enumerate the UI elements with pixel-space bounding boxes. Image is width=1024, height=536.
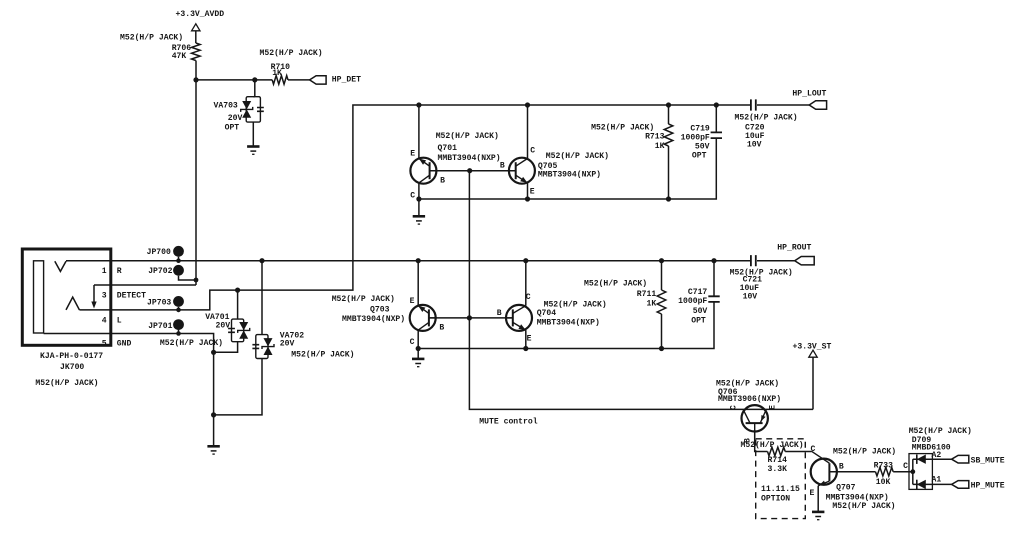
transistor Q701 [410, 158, 437, 184]
jumper JP701 pad [173, 319, 184, 330]
svg-text:C: C [530, 147, 535, 156]
power symbol +3.3V_AVDD [192, 24, 200, 31]
svg-text:1000pF: 1000pF [678, 297, 707, 306]
svg-text:M52(H/P JACK): M52(H/P JACK) [909, 427, 972, 436]
svg-text:M52(H/P JACK): M52(H/P JACK) [120, 33, 183, 42]
resistor R711 body [657, 290, 666, 314]
node Q703 E rail [416, 258, 421, 263]
wire [252, 122, 254, 146]
node R713 top [666, 102, 671, 107]
svg-text:B: B [839, 463, 844, 472]
node C717 top [711, 258, 716, 263]
node VA701 top [235, 288, 240, 293]
node D709 common [910, 469, 915, 474]
node JP703 on L wire [176, 308, 181, 313]
connector JK700 jack body [22, 249, 111, 345]
svg-text:B: B [440, 176, 445, 185]
wire [668, 146, 670, 199]
wire R706 to detect line [195, 61, 197, 286]
svg-text:10V: 10V [743, 292, 758, 301]
wire [254, 80, 256, 97]
svg-text:Q707: Q707 [836, 484, 856, 493]
wire Q706 base to R714 [755, 432, 768, 452]
svg-text:B: B [497, 309, 502, 318]
svg-text:M52(H/P JACK): M52(H/P JACK) [546, 152, 609, 161]
node R711 top [659, 258, 664, 263]
wire Q705 collector [527, 105, 529, 159]
node R713 bottom [666, 196, 671, 201]
wire +3.3V_ST [812, 357, 814, 409]
svg-text:M52(H/P JACK): M52(H/P JACK) [832, 502, 895, 511]
svg-text:20V: 20V [280, 340, 295, 349]
svg-text:DETECT: DETECT [117, 291, 146, 300]
wire D709 common cathode [912, 459, 914, 484]
svg-text:10K: 10K [876, 478, 891, 487]
resistor R706 body [192, 43, 201, 61]
node Q704 C rail [523, 258, 528, 263]
svg-text:1000pF: 1000pF [681, 133, 710, 142]
svg-text:OPT: OPT [691, 317, 706, 326]
svg-text:E: E [769, 405, 778, 410]
svg-text:C720: C720 [745, 123, 765, 132]
svg-text:Q701: Q701 [438, 144, 458, 153]
diode D709 body [909, 454, 932, 490]
wire [196, 79, 272, 81]
svg-text:+3.3V_AVDD: +3.3V_AVDD [176, 10, 225, 19]
svg-text:C: C [410, 191, 415, 200]
svg-text:L: L [117, 316, 122, 325]
node GND/VA702 [211, 412, 216, 417]
wire [661, 314, 663, 349]
jack ring contact (L) [66, 297, 79, 310]
wire [261, 261, 263, 335]
svg-text:E: E [527, 335, 532, 344]
transistor Q704 [505, 305, 532, 331]
svg-text:E: E [809, 489, 814, 498]
wire [715, 105, 717, 132]
wire R714 to Q707 collector [785, 451, 811, 453]
svg-text:1K: 1K [646, 300, 656, 309]
capacitor C721 [751, 255, 756, 266]
svg-text:MUTE control: MUTE control [479, 418, 537, 427]
wire bottom amp bottom rail [418, 302, 714, 349]
svg-text:R714: R714 [768, 456, 788, 465]
svg-text:HP_LOUT: HP_LOUT [792, 89, 826, 98]
node junction R706/HP_DET [193, 77, 198, 82]
wire R733 to D709 [893, 471, 913, 473]
wire Q707 emitter to gnd [817, 486, 819, 512]
ground Q703 [412, 359, 424, 367]
wire Q705 emitter [527, 183, 529, 199]
diode D709 lower (A1) [916, 480, 918, 489]
jack detect arrowhead [91, 302, 96, 309]
svg-text:B: B [439, 324, 444, 333]
svg-text:M52(H/P JACK): M52(H/P JACK) [735, 114, 798, 123]
suppressor VA701 [228, 319, 244, 342]
svg-text:JP702: JP702 [148, 267, 172, 276]
svg-text:M52(H/P JACK): M52(H/P JACK) [584, 279, 647, 288]
svg-text:50V: 50V [695, 143, 710, 152]
port HP_MUTE [952, 481, 969, 489]
port HP_ROUT [795, 257, 815, 265]
svg-text:JP703: JP703 [147, 298, 171, 307]
svg-text:R711: R711 [637, 290, 657, 299]
wire [253, 96, 255, 98]
wire top amp bottom rail [419, 138, 716, 199]
resistor R710 body [272, 76, 288, 85]
wire [237, 290, 239, 319]
JP701 stub [178, 330, 180, 334]
transistor Q707 [811, 451, 837, 486]
svg-text:20V: 20V [216, 321, 231, 330]
JP702 stub [179, 276, 197, 280]
port HP_DET [310, 76, 327, 84]
option box 11.11.15 [756, 439, 806, 519]
svg-text:JP701: JP701 [148, 322, 172, 331]
node GND/VA701 [211, 350, 216, 355]
wire base Q701-Q705 [430, 170, 516, 172]
node JP700 on R wire [176, 258, 181, 263]
wire [195, 31, 197, 43]
wire to ground [417, 349, 419, 359]
ground Q707 [812, 512, 824, 520]
svg-text:SB_MUTE: SB_MUTE [971, 457, 1005, 466]
node Q704 E [523, 346, 528, 351]
node junction VA703 [252, 77, 257, 82]
node Q701 E rail [416, 102, 421, 107]
svg-text:M52(H/P JACK): M52(H/P JACK) [436, 132, 499, 141]
arrow Q707 emitter [818, 481, 826, 488]
suppressor VA703 [246, 97, 264, 122]
wire Q704 emitter [525, 330, 527, 348]
transistor Q705 [508, 158, 535, 184]
power symbol +3.3V_ST [809, 350, 817, 357]
wire MUTE control [469, 171, 813, 410]
wire Q701 emitter [418, 105, 420, 159]
svg-text:MMBT3904(NXP): MMBT3904(NXP) [538, 170, 601, 179]
svg-text:M52(H/P JACK): M52(H/P JACK) [591, 123, 654, 132]
node Q705 E [525, 196, 530, 201]
svg-text:OPT: OPT [225, 124, 240, 133]
svg-text:M52(H/P JACK): M52(H/P JACK) [332, 295, 395, 304]
svg-text:4: 4 [102, 316, 107, 325]
wire DETECT pin3 [94, 284, 196, 286]
port HP_LOUT [809, 101, 826, 109]
svg-text:E: E [410, 297, 415, 306]
svg-text:MMBT3904(NXP): MMBT3904(NXP) [342, 315, 405, 324]
suppressor VA702 [252, 335, 268, 359]
resistor R733 body [876, 467, 894, 476]
svg-text:50V: 50V [693, 307, 708, 316]
svg-text:R733: R733 [874, 462, 894, 471]
svg-text:HP_ROUT: HP_ROUT [777, 244, 811, 253]
svg-text:C719: C719 [690, 125, 710, 134]
svg-text:OPTION: OPTION [761, 495, 790, 504]
svg-text:1: 1 [102, 267, 107, 276]
transistor Q706 [742, 405, 768, 431]
svg-text:20V: 20V [228, 114, 243, 123]
capacitor C717 [708, 296, 719, 302]
svg-text:GND: GND [117, 339, 132, 348]
svg-text:Q704: Q704 [537, 309, 557, 318]
wire D709 A2 to SB_MUTE [913, 458, 952, 460]
node Q701 C [416, 196, 421, 201]
jack detect switch arm [93, 285, 95, 305]
svg-text:10V: 10V [747, 141, 762, 150]
svg-text:R713: R713 [645, 133, 665, 142]
node Q705 C rail [525, 102, 530, 107]
svg-text:3: 3 [102, 291, 107, 300]
node base junction top [467, 168, 472, 173]
svg-text:JK700: JK700 [60, 363, 84, 372]
wire Q703 collector [417, 330, 419, 348]
svg-text:1K: 1K [272, 69, 282, 78]
svg-text:Q703: Q703 [370, 305, 390, 314]
jumper JP700 pad [173, 246, 184, 257]
svg-text:5: 5 [102, 339, 107, 348]
wire Q704 collector [525, 261, 527, 306]
wire GND net [44, 334, 214, 446]
svg-text:B: B [500, 161, 505, 170]
ground VA703 [247, 147, 259, 155]
wire [661, 261, 663, 290]
JP703 stub [178, 307, 180, 310]
resistor R713 body [664, 124, 673, 146]
resistor R714 body [768, 447, 786, 456]
svg-text:47K: 47K [172, 52, 187, 61]
svg-text:JP700: JP700 [147, 248, 171, 257]
jumper JP703 pad [173, 296, 184, 307]
jack tip contact (R) [55, 261, 66, 271]
wire L to port [757, 104, 809, 106]
wire R to port [757, 260, 795, 262]
jack sleeve contact [34, 261, 44, 333]
wire [713, 261, 715, 297]
node JP702 to detect pullup [194, 278, 199, 283]
svg-text:M52(H/P JACK): M52(H/P JACK) [833, 447, 896, 456]
transistor Q703 [410, 305, 437, 331]
ground Q701 [413, 216, 425, 224]
svg-text:M52(H/P JACK): M52(H/P JACK) [260, 49, 323, 58]
svg-text:A2: A2 [932, 451, 942, 460]
svg-text:+3.3V_ST: +3.3V_ST [793, 342, 832, 351]
capacitor C720 [751, 99, 756, 110]
svg-text:E: E [410, 149, 415, 158]
svg-text:HP_MUTE: HP_MUTE [971, 481, 1005, 490]
svg-text:MMBT3904(NXP): MMBT3904(NXP) [537, 318, 600, 327]
wire base Q703-Q704 [429, 317, 513, 319]
svg-text:HP_DET: HP_DET [332, 75, 361, 84]
arrow Q706 emitter [759, 415, 766, 422]
wire L channel to top rail [79, 105, 750, 310]
node JP701 on GND wire [176, 331, 181, 336]
wire [288, 79, 310, 81]
svg-text:MMBT3906(NXP): MMBT3906(NXP) [718, 395, 781, 404]
wire VA702 to gnd [214, 359, 262, 415]
svg-text:VA703: VA703 [214, 102, 238, 111]
svg-text:A1: A1 [932, 476, 942, 485]
capacitor C719 [711, 132, 722, 138]
node C719 top [714, 102, 719, 107]
svg-text:C: C [903, 462, 908, 471]
wire D709 A1 to HP_MUTE [913, 483, 952, 485]
jumper JP702 pad [173, 265, 184, 276]
svg-text:R: R [117, 267, 122, 276]
wire Q703 emitter [417, 261, 419, 306]
diode D709 upper (A2) [916, 455, 918, 464]
svg-text:MMBT3904(NXP): MMBT3904(NXP) [438, 154, 501, 163]
svg-text:C717: C717 [688, 288, 708, 297]
node R711 bottom [659, 346, 664, 351]
node VA702 top [259, 258, 264, 263]
svg-text:C: C [410, 338, 415, 347]
node base junction bottom [467, 315, 472, 320]
node Q703 C [416, 346, 421, 351]
svg-text:M52(H/P JACK): M52(H/P JACK) [35, 379, 98, 388]
svg-text:OPT: OPT [692, 152, 707, 161]
wire R channel [66, 260, 750, 262]
svg-text:11.11.15: 11.11.15 [761, 485, 800, 494]
svg-text:1K: 1K [655, 142, 665, 151]
svg-text:M52(H/P JACK): M52(H/P JACK) [291, 350, 354, 359]
wire to ground [418, 199, 420, 216]
svg-text:E: E [530, 188, 535, 197]
port SB_MUTE [952, 455, 969, 463]
wire Q707 base [829, 471, 875, 473]
wire VA701 to gnd [214, 342, 238, 353]
wire Q701 collector [418, 183, 420, 199]
JP700 stub [178, 257, 180, 261]
svg-text:C: C [729, 405, 738, 410]
wire [668, 105, 670, 124]
svg-text:KJA-PH-0-0177: KJA-PH-0-0177 [40, 352, 103, 361]
svg-text:3.3K: 3.3K [768, 465, 788, 474]
ground jack [207, 446, 219, 454]
